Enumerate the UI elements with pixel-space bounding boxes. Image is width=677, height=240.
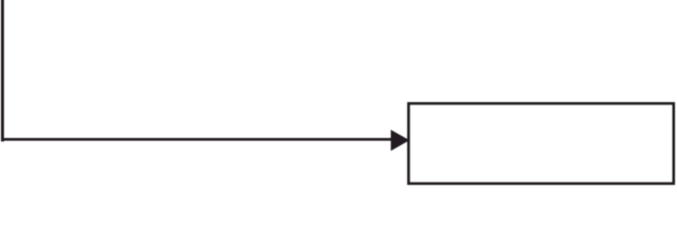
wire horizontal segment (1, 138, 392, 141)
box node (409, 104, 674, 184)
wire vertical segment (1, 0, 4, 142)
arrowhead (391, 130, 410, 151)
